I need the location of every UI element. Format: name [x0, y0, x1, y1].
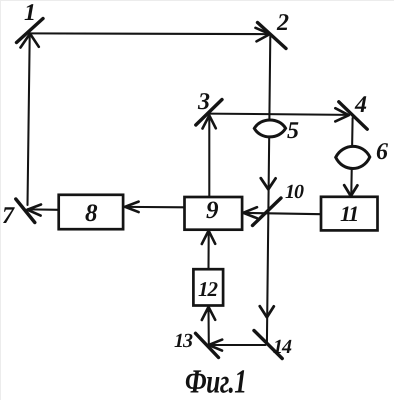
mirror 10 [253, 198, 282, 226]
arrowhead into mirror 2 [256, 28, 270, 42]
wire: vertical box9 bottom to box12 top [207, 233, 209, 269]
box 11 [321, 197, 378, 231]
mirror 7 [16, 199, 35, 223]
wire: horizontal mirror14 to mirror13 [212, 344, 266, 346]
lens 6 [336, 146, 370, 168]
arrowhead left into box 8 [125, 202, 139, 213]
arrowhead left into box 9 [243, 207, 257, 218]
arrowhead down into box 11 [344, 185, 357, 196]
svg-text:4: 4 [354, 92, 367, 118]
wire: left vertical mirror7 up to mirror1 [28, 36, 30, 205]
box 12 [193, 269, 223, 305]
arrowhead left into mirror 13 [209, 340, 223, 351]
svg-text:12: 12 [198, 277, 219, 301]
lens 5 [254, 120, 285, 137]
wire: vertical box12 bottom to mirror 13 [207, 309, 209, 344]
mirror 1 [17, 19, 44, 43]
arrowhead up into box 9 bottom [202, 231, 215, 244]
wire: vertical box9 top up to mirror 3 [208, 118, 210, 196]
svg-text:13: 13 [174, 330, 193, 352]
arrowhead into mirror 4 [335, 108, 349, 121]
box 8 [59, 195, 123, 229]
svg-text:10: 10 [285, 181, 304, 203]
svg-text:8: 8 [85, 200, 98, 227]
arrowhead left into mirror 7 [27, 205, 41, 216]
mirror 2 [258, 23, 287, 49]
arrowhead on beam above mirror 14 [260, 306, 274, 317]
mirror 14 [254, 331, 282, 359]
svg-text:3: 3 [197, 89, 210, 115]
wire: main vertical beam mirror2 down to mirror14 [267, 37, 270, 344]
arrowhead up into box 12 bottom [202, 307, 215, 320]
arrowhead up into mirror 3 [203, 115, 216, 128]
svg-text:1: 1 [24, 1, 36, 26]
mirror 13 [196, 333, 219, 357]
svg-text:9: 9 [206, 197, 219, 224]
mirror 3 [196, 100, 222, 126]
wire: vertical mirror4 through lens6 into box 11 [351, 118, 352, 194]
svg-text:2: 2 [276, 10, 289, 36]
wire: top horizontal mirror1 to mirror2 [30, 32, 267, 35]
arrowhead up into mirror 1 [21, 34, 39, 48]
mirror 4 [339, 102, 367, 129]
wire: horizontal box11 through mirror10 to box9 [245, 213, 321, 214]
svg-text:7: 7 [2, 203, 15, 229]
svg-text:11: 11 [340, 201, 358, 226]
svg-text:6: 6 [376, 139, 388, 165]
arrowhead on beam above mirror 10 [261, 178, 276, 189]
wire: horizontal box8 to mirror7 [30, 208, 59, 210]
svg-text:5: 5 [287, 118, 299, 144]
wire: horizontal mirror3 to mirror4 [208, 114, 348, 115]
svg-text:Фиг.1: Фиг.1 [185, 364, 247, 400]
wire: horizontal box9 to box8 [127, 206, 184, 208]
svg-text:14: 14 [273, 336, 292, 358]
box 9 [185, 197, 243, 230]
